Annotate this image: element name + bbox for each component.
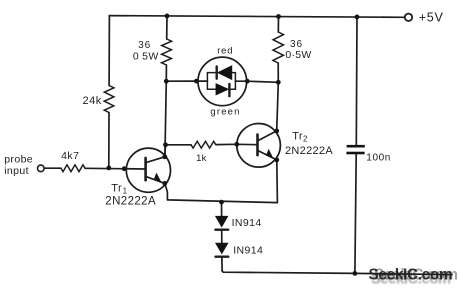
svg-text:green: green — [210, 107, 240, 118]
svg-text:input: input — [4, 165, 29, 177]
svg-text:probe: probe — [4, 153, 33, 165]
svg-text:0 5W: 0 5W — [133, 50, 159, 62]
svg-text:100n: 100n — [366, 153, 391, 164]
svg-text:+5V: +5V — [419, 11, 444, 25]
svg-text:4k7: 4k7 — [61, 150, 79, 162]
svg-text:IN914: IN914 — [232, 217, 262, 229]
svg-text:Tr: Tr — [111, 182, 122, 194]
svg-text:1k: 1k — [196, 153, 206, 164]
svg-text:1: 1 — [123, 186, 128, 195]
svg-text:IN914: IN914 — [233, 245, 263, 257]
svg-text:2N2222A: 2N2222A — [105, 196, 156, 208]
svg-text:24k: 24k — [83, 95, 102, 107]
svg-text:SeekIC.com: SeekIC.com — [371, 272, 451, 288]
svg-text:Tr: Tr — [292, 131, 303, 143]
svg-text:2N2222A: 2N2222A — [285, 145, 333, 157]
svg-text:2: 2 — [303, 135, 308, 144]
svg-text:0·5W: 0·5W — [285, 49, 311, 61]
svg-text:36: 36 — [138, 40, 151, 51]
svg-text:red: red — [217, 45, 233, 56]
